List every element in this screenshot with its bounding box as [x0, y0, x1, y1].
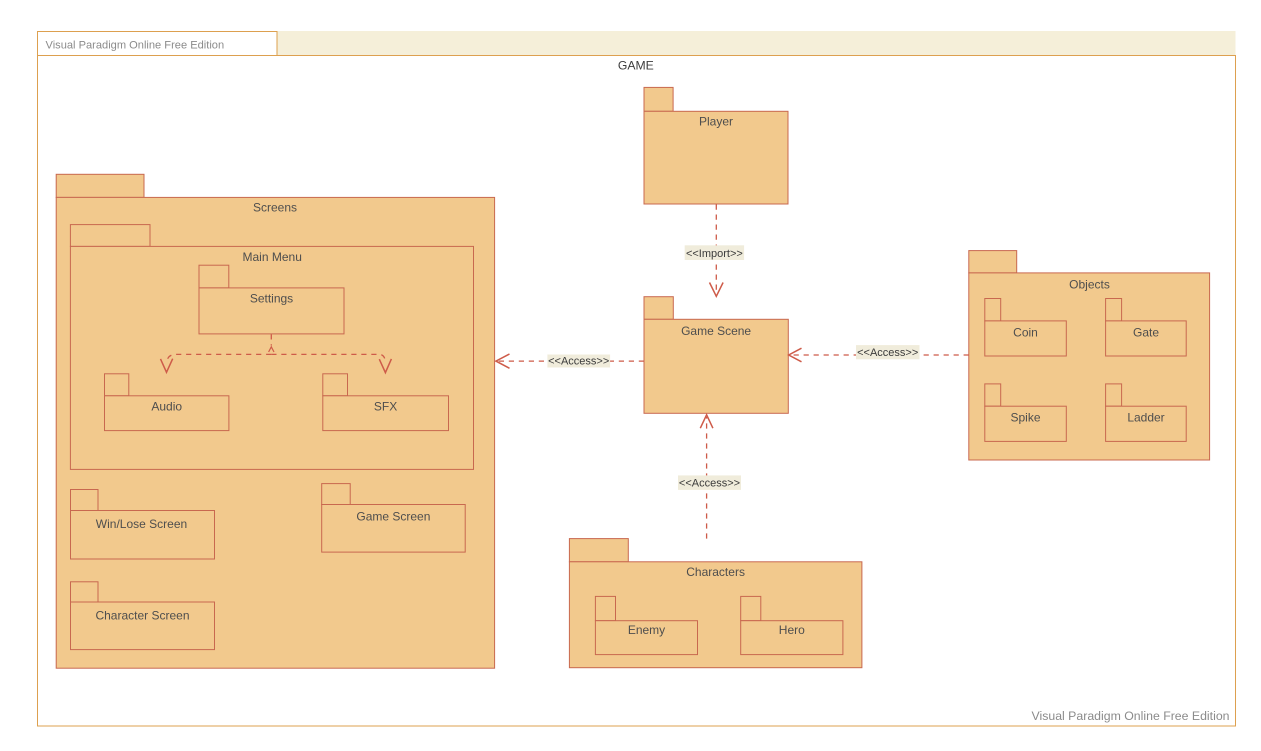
arrowhead into SFX (down V): [379, 359, 391, 373]
svg-text:Settings: Settings: [250, 292, 293, 306]
package Audio: [105, 374, 129, 396]
svg-text:Visual Paradigm Online Free Ed: Visual Paradigm Online Free Edition: [46, 39, 225, 51]
svg-text:GAME: GAME: [618, 58, 654, 72]
svg-text:Win/Lose Screen: Win/Lose Screen: [96, 517, 187, 531]
package Spike: [985, 384, 1001, 406]
package SFX: [323, 374, 348, 396]
svg-text:SFX: SFX: [374, 400, 397, 414]
package name labels: [95, 114, 1164, 637]
package Player: [644, 87, 673, 111]
wire Game Scene to Screens (dashed horizontal): [498, 360, 645, 362]
wire Player to Game Scene (dashed vertical): [715, 205, 717, 295]
wire Settings stub down: [270, 334, 272, 345]
svg-text:<<Access>>: <<Access>>: [857, 347, 918, 359]
package Game Screen: [322, 484, 351, 505]
package Settings: [199, 265, 229, 288]
svg-text:Ladder: Ladder: [1127, 411, 1164, 425]
svg-text:Game Scene: Game Scene: [681, 324, 751, 338]
label Import on Player->Game Scene wire: [685, 245, 744, 260]
arrowhead into Screens (left V): [496, 354, 510, 368]
svg-text:Coin: Coin: [1013, 325, 1038, 339]
wire Characters to Game Scene (dashed vertical): [706, 417, 708, 539]
svg-text:Player: Player: [699, 114, 733, 128]
svg-text:Gate: Gate: [1133, 325, 1159, 339]
package Main Menu: [70, 225, 150, 247]
package Character Screen: [71, 582, 99, 602]
package Enemy: [595, 596, 615, 620]
package Game Scene: [644, 297, 673, 320]
watermark tab: [38, 32, 278, 56]
svg-text:Hero: Hero: [779, 623, 805, 637]
svg-text:<<Import>>: <<Import>>: [686, 248, 743, 260]
package Hero: [741, 596, 761, 620]
arrowhead caret up at Settings junction: [269, 347, 274, 352]
package Coin: [985, 299, 1001, 321]
svg-text:<<Access>>: <<Access>>: [679, 478, 740, 490]
package Ladder: [1106, 384, 1122, 406]
svg-text:Game Screen: Game Screen: [356, 510, 430, 524]
svg-text:Screens: Screens: [253, 201, 297, 215]
svg-text:<<Access>>: <<Access>>: [548, 356, 609, 368]
connectors: [161, 205, 969, 539]
svg-text:Visual Paradigm Online Free Ed: Visual Paradigm Online Free Edition: [1032, 709, 1230, 723]
arrowhead into Game Scene (left V): [789, 348, 802, 362]
wire split to Audio (dashed elbow): [167, 354, 271, 363]
svg-text:Objects: Objects: [1069, 277, 1110, 291]
package Gate: [1106, 299, 1122, 321]
package Characters: [569, 539, 628, 562]
label Access on Characters->Game Scene wire: [678, 475, 741, 490]
svg-text:Main Menu: Main Menu: [243, 250, 302, 264]
package Win/Lose Screen: [71, 490, 99, 511]
package Screens: [56, 174, 144, 197]
svg-text:Audio: Audio: [151, 400, 182, 414]
arrowhead into Audio (down V): [161, 359, 173, 373]
svg-text:Characters: Characters: [686, 565, 745, 579]
svg-text:Character Screen: Character Screen: [95, 608, 189, 622]
label Access on Game Scene->Screens wire: [547, 355, 610, 368]
package Objects: [969, 251, 1017, 273]
wire split to SFX (dashed elbow): [271, 354, 385, 363]
svg-text:Enemy: Enemy: [628, 623, 665, 637]
label Access on Objects->Game Scene wire: [856, 345, 920, 359]
arrowhead into Game Scene (down V): [710, 283, 724, 297]
arrowhead into Game Scene (up V): [700, 415, 713, 428]
wire Objects to Game Scene (dashed horizontal): [790, 354, 969, 356]
svg-text:Spike: Spike: [1010, 411, 1040, 425]
watermark top strip: [37, 31, 1236, 56]
